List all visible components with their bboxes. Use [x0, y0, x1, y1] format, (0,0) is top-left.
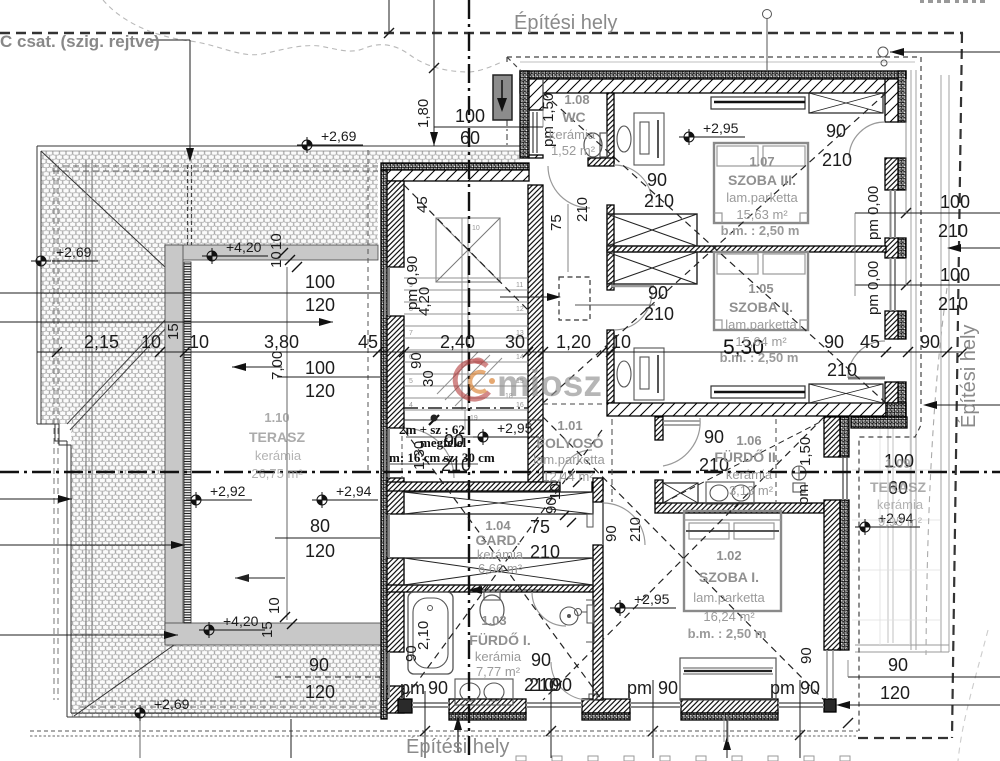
section arrow bottom: [457, 719, 459, 752]
svg-text:1,80: 1,80: [415, 99, 432, 128]
svg-text:12,44 m²: 12,44 m²: [542, 469, 594, 484]
svg-text:2,40: 2,40: [440, 332, 475, 352]
svg-text:120: 120: [305, 682, 335, 702]
svg-text:45: 45: [358, 332, 378, 352]
light dashed arc bottom right: [958, 630, 988, 761]
south wall blocks: [449, 699, 526, 713]
main dimension chain line: [37, 351, 963, 353]
svg-text:lam.parketta: lam.parketta: [725, 317, 797, 332]
stair north wall: [387, 170, 529, 181]
window south 1: [412, 703, 449, 707]
west wall blocks: [387, 181, 404, 267]
top right cut text fragment: [920, 0, 985, 3]
top dim line 100/60: [434, 126, 543, 128]
window dim line left 2: [277, 376, 380, 378]
svg-text:10: 10: [266, 597, 283, 614]
desk SZOBA III: [634, 113, 664, 165]
window west corridor: [385, 428, 389, 478]
svg-text:Építési hely: Építési hely: [514, 11, 617, 34]
FURDO II washbasins: [706, 482, 754, 504]
svg-text:210: 210: [627, 517, 644, 542]
svg-text:10: 10: [268, 233, 285, 250]
svg-text:75: 75: [530, 517, 550, 537]
roof shingle top band: [165, 151, 378, 245]
stair cross X: [436, 218, 500, 282]
svg-text:kerámia: kerámia: [477, 547, 524, 562]
hidden gutter dashed top: [53, 166, 378, 171]
terrace dim vertical line: [286, 267, 288, 620]
svg-text:100: 100: [940, 265, 970, 285]
stair bottom dot: [431, 415, 438, 422]
right dim row line 1: [855, 212, 1000, 214]
svg-text:kerámia: kerámia: [726, 467, 773, 482]
svg-text:Építési hely: Építési hely: [406, 735, 509, 758]
svg-text:miosz: miosz: [497, 363, 602, 404]
door SZOBA III east: [849, 122, 885, 158]
svg-text:90: 90: [800, 678, 820, 698]
svg-text:10: 10: [268, 251, 285, 268]
window south 2: [526, 703, 582, 707]
svg-text:120: 120: [305, 295, 335, 315]
roof hip top-left: [41, 151, 165, 267]
svg-text:26,75 m²: 26,75 m²: [251, 466, 303, 481]
window dim line left 4: [275, 676, 380, 678]
roof valley diagonal double: [67, 320, 165, 430]
closet hall lower X-box: [607, 252, 697, 284]
svg-text:1.09: 1.09: [885, 456, 910, 471]
level labels: [52, 120, 920, 713]
roof slope stair: [404, 185, 528, 310]
svg-text:b.m. : 2,50 m: b.m. : 2,50 m: [688, 626, 767, 641]
svg-text:15,64 m²: 15,64 m²: [735, 334, 787, 349]
section line vertical: [468, 0, 470, 755]
door SZOBA II west: [614, 292, 652, 330]
svg-text:C csat. (szig. rejtve): C csat. (szig. rejtve): [0, 32, 160, 51]
svg-text:30: 30: [420, 370, 437, 387]
svg-text:SZOBA I.: SZOBA I.: [699, 569, 759, 585]
svg-text:11: 11: [516, 282, 523, 289]
door SZOBA I: [603, 503, 645, 545]
corridor arrow interior: [468, 589, 545, 591]
svg-text:3,13 m²: 3,13 m²: [729, 483, 774, 498]
stair check notes: [389, 422, 495, 465]
svg-text:60: 60: [460, 128, 480, 148]
roof edge bottom: [67, 713, 385, 717]
svg-text:90: 90: [888, 655, 908, 675]
SZOBA I east wall: [824, 417, 840, 457]
south wall insulation: [449, 713, 526, 720]
SZOBA II bottom shelf: [711, 386, 805, 398]
bed SZOBA II: [714, 252, 808, 330]
inner envelope top: [507, 56, 921, 58]
window west GARD: [385, 514, 389, 558]
svg-text:1,52 m²: 1,52 m²: [551, 143, 596, 158]
svg-text:100: 100: [305, 272, 335, 292]
svg-text:100: 100: [455, 106, 485, 126]
svg-text:210: 210: [530, 542, 560, 562]
svg-text:90: 90: [603, 525, 620, 542]
dashed opening SZOBA I west: [611, 419, 613, 502]
svg-text:GARD.: GARD.: [475, 532, 520, 548]
parapet small ticks: [278, 248, 582, 629]
door GARD: [560, 450, 592, 482]
divider wall SZOBA III / II: [607, 246, 886, 252]
dim ticks main chain: [52, 347, 968, 357]
FURDO I washbasins: [455, 679, 513, 705]
svg-text:10: 10: [472, 225, 480, 232]
door FURDO II: [663, 418, 700, 466]
svg-text:kerámia: kerámia: [877, 497, 924, 512]
svg-text:14: 14: [516, 354, 524, 361]
svg-text:210: 210: [574, 197, 591, 222]
svg-text:10: 10: [189, 332, 209, 352]
svg-text:kerámia: kerámia: [549, 127, 596, 142]
east wall insulation blocks: [898, 71, 906, 122]
svg-text:210: 210: [644, 304, 674, 324]
svg-text:2,15: 2,15: [84, 332, 119, 352]
top right leader: [890, 51, 1000, 53]
svg-text:90: 90: [647, 170, 667, 190]
pipe below south wall: [724, 716, 728, 742]
roof shingle bottom band: [165, 645, 385, 717]
svg-text:+4,20: +4,20: [226, 239, 262, 255]
right lower dim lines: [848, 676, 1000, 678]
right dim row line 2: [855, 284, 1000, 286]
svg-text:90: 90: [531, 650, 551, 670]
svg-text:1,20: 1,20: [556, 332, 591, 352]
svg-text:Építési hely: Építési hely: [957, 325, 980, 428]
svg-text:FOLYOSÓ: FOLYOSÓ: [536, 434, 603, 451]
svg-text:7,00: 7,00: [269, 351, 286, 380]
level marker template uses: [31, 129, 875, 721]
svg-text:1.06: 1.06: [736, 433, 761, 448]
SZOBA III top shelf: [711, 97, 805, 109]
right lower terrace edge lines: [911, 70, 916, 650]
door WC: [548, 166, 590, 208]
svg-text:120: 120: [305, 541, 335, 561]
shaft dashed square: [559, 277, 590, 320]
svg-text:b.m. : 2,50 m: b.m. : 2,50 m: [721, 223, 800, 238]
main dim chain texts: [84, 332, 940, 352]
radiator GARD side: [587, 514, 593, 527]
stair stringer: [462, 218, 468, 410]
desk SZOBA II: [634, 348, 664, 400]
bench outside south: [680, 658, 776, 700]
svg-text:+2,69: +2,69: [56, 244, 92, 260]
GARD south wall: [387, 585, 603, 592]
svg-text:15: 15: [259, 621, 276, 638]
roof shingle area left column: [41, 151, 165, 424]
closet wall west of rooms: [607, 93, 614, 165]
roof slope X west wing: [404, 430, 602, 700]
roof slope X south wing: [543, 417, 824, 700]
svg-text:pm: pm: [770, 678, 795, 698]
svg-text:pm 0,00: pm 0,00: [865, 186, 882, 240]
svg-text:100: 100: [940, 192, 970, 212]
north wall insulation: [520, 71, 906, 79]
svg-text:lam.parketta: lam.parketta: [693, 590, 765, 605]
building site boundary bottom: [858, 737, 953, 739]
svg-text:+2,69: +2,69: [154, 696, 190, 712]
svg-text:210: 210: [938, 221, 968, 241]
svg-text:210: 210: [827, 360, 857, 380]
GARD north wall: [387, 482, 560, 491]
svg-text:+2,92: +2,92: [210, 483, 246, 499]
svg-text:5: 5: [409, 378, 413, 385]
terrace leader arrow: [930, 404, 1000, 406]
svg-text:pm: pm: [795, 484, 812, 505]
svg-text:SZOBA II.: SZOBA II.: [729, 299, 793, 315]
svg-text:45: 45: [860, 332, 880, 352]
terrain contour dashed: [103, 0, 502, 72]
stair east / corridor west wall: [528, 185, 543, 482]
svg-text:90: 90: [309, 655, 329, 675]
svg-text:+2,95: +2,95: [497, 420, 533, 436]
gutter lines left: [86, 160, 92, 700]
SZOBA II X wardrobe: [809, 384, 883, 403]
rain pipe: [763, 10, 772, 19]
svg-text:90: 90: [552, 675, 572, 695]
svg-text:1,50: 1,50: [797, 437, 814, 466]
door FURDO I inner arc: [551, 662, 589, 700]
svg-text:lam.parketta: lam.parketta: [726, 190, 798, 205]
svg-text:80: 80: [310, 516, 330, 536]
door FURDO I: [532, 592, 566, 626]
bed SZOBA I: [684, 511, 781, 611]
west WC wall: [529, 79, 543, 110]
left arrow line 1: [0, 498, 72, 500]
dashed arc right: [926, 288, 947, 655]
svg-text:SZOBA III.: SZOBA III.: [728, 172, 796, 188]
shaft arrow: [500, 296, 549, 298]
C csat leader: [150, 40, 190, 158]
FURDO II south wall: [655, 503, 824, 513]
svg-text:m: 16 cm sz: 30 cm: m: 16 cm sz: 30 cm: [389, 450, 495, 465]
stair north wall insulation: [381, 163, 529, 170]
svg-text:TERASZ: TERASZ: [249, 429, 305, 445]
south band of bedroom wing: [607, 403, 886, 416]
building site boundary top: [0, 32, 963, 35]
svg-text:1.08: 1.08: [564, 92, 589, 107]
window WC west: [533, 112, 537, 153]
svg-text:90: 90: [543, 497, 560, 514]
closet hall upper X-box: [607, 214, 697, 246]
svg-text:pm 0,00: pm 0,00: [865, 261, 882, 315]
svg-text:1.02: 1.02: [716, 548, 741, 563]
svg-text:12: 12: [516, 306, 524, 313]
svg-text:6,66 m²: 6,66 m²: [478, 561, 523, 576]
right wall leader arrow: [955, 247, 1000, 249]
svg-text:b.m. : 2,50 m: b.m. : 2,50 m: [720, 350, 799, 365]
hidden gutter dashed vertical: [54, 168, 58, 700]
door SZOBA III west: [614, 165, 652, 203]
terrace arrow left short: [232, 366, 282, 368]
svg-text:1.03: 1.03: [481, 613, 506, 628]
door dims bedrooms west: [441, 121, 852, 695]
svg-text:kerámia: kerámia: [255, 448, 302, 463]
svg-text:90: 90: [428, 678, 448, 698]
svg-text:1.10: 1.10: [264, 410, 289, 425]
window west stair: [385, 267, 389, 316]
svg-text:1.01: 1.01: [557, 418, 582, 433]
window south 3: [630, 703, 681, 707]
SZOBA I west wall: [593, 478, 603, 502]
radiator SZOBA I: [587, 605, 593, 623]
right dim ticks: [901, 208, 911, 290]
FURDO II toilet: [792, 466, 806, 480]
top dim vertical 1,80: [433, 0, 435, 146]
svg-text:FÜRDŐ I.: FÜRDŐ I.: [469, 631, 530, 648]
WC toilet: [584, 133, 602, 157]
svg-text:10: 10: [141, 332, 161, 352]
svg-text:7: 7: [409, 330, 413, 337]
svg-text:210: 210: [644, 191, 674, 211]
svg-text:90: 90: [704, 427, 724, 447]
window west FURDO I: [385, 652, 389, 698]
svg-text:1.05: 1.05: [748, 281, 773, 296]
window south 4: [778, 703, 824, 707]
svg-text:90: 90: [798, 647, 815, 664]
FURDO II west stubs: [655, 417, 663, 440]
FURDO I shower: [560, 607, 578, 625]
svg-text:15: 15: [165, 323, 182, 340]
svg-text:10: 10: [611, 332, 631, 352]
roof slope X bedrooms: [543, 93, 886, 403]
GARD X wardrobe top: [404, 492, 593, 514]
roof outer edge left: [37, 146, 41, 424]
svg-text:lam.parketta: lam.parketta: [533, 452, 605, 467]
svg-text:210: 210: [938, 294, 968, 314]
svg-text:FÜRDŐ II.: FÜRDŐ II.: [714, 448, 779, 465]
bed SZOBA III: [714, 143, 808, 223]
terrace inner wall strip west: [184, 262, 191, 623]
chimney flue dash-dot: [506, 120, 508, 146]
hidden pipe: [188, 165, 192, 245]
terrace parapet west band: [165, 245, 183, 645]
door corridor terrace: [404, 428, 454, 478]
roof slope FURDO II: [663, 420, 824, 503]
roof edge top: [37, 145, 520, 147]
bottom pm row: [400, 675, 820, 698]
east connector to south wall: [827, 650, 833, 699]
svg-text:1.04: 1.04: [485, 518, 511, 533]
window dim line left 1: [0, 292, 380, 294]
svg-text:90: 90: [403, 645, 420, 662]
GARD X wardrobe bottom: [404, 558, 593, 585]
svg-text:kerámia: kerámia: [475, 649, 522, 664]
svg-text:4,20: 4,20: [416, 287, 433, 316]
sill detail notch: [589, 694, 597, 700]
stair bottom landing line: [404, 419, 543, 421]
svg-text:3,80: 3,80: [264, 332, 299, 352]
svg-text:7,77 m²: 7,77 m²: [476, 664, 521, 679]
bottom tiny legend marks: [516, 756, 850, 761]
svg-text:30: 30: [505, 332, 525, 352]
svg-text:+2,94: +2,94: [336, 483, 372, 499]
svg-text:210: 210: [822, 150, 852, 170]
window east wall 1: [891, 190, 896, 238]
right dims: [880, 192, 970, 703]
svg-text:+4,20: +4,20: [223, 613, 259, 629]
west WC wall insulation: [520, 71, 529, 158]
line below +2,69 marker: [139, 718, 141, 758]
svg-text:TERASZ: TERASZ: [870, 479, 926, 495]
SZOBA III X wardrobe: [809, 93, 883, 113]
svg-text:16,24 m²: 16,24 m²: [703, 609, 755, 624]
east wall blocks: [885, 79, 898, 122]
svg-text:WC: WC: [562, 109, 585, 125]
svg-text:+2,95: +2,95: [703, 120, 739, 136]
terrace railing lines: [888, 422, 893, 643]
svg-text:75: 75: [548, 214, 565, 231]
window east wall 2: [891, 258, 896, 311]
svg-text:90: 90: [408, 352, 425, 369]
terrace band arrow: [0, 634, 178, 636]
tread numbers: [409, 225, 524, 422]
svg-text:9,95 m²: 9,95 m²: [878, 514, 923, 529]
FURDO II X box: [663, 483, 698, 503]
svg-text:210: 210: [524, 675, 554, 695]
corner squares: [398, 699, 412, 713]
dashed niche divider FURDO II: [775, 419, 777, 503]
svg-text:90: 90: [824, 332, 844, 352]
FURDO I toilet: [480, 595, 504, 625]
svg-text:45: 45: [414, 196, 431, 213]
svg-text:90: 90: [658, 678, 678, 698]
hidden gutter dashed bottom: [80, 701, 385, 707]
terrace long arrow right: [0, 321, 333, 323]
svg-text:100: 100: [305, 358, 335, 378]
svg-text:+2,69: +2,69: [321, 128, 357, 144]
left arrow line 2: [0, 544, 185, 546]
west wall insulation: [381, 170, 387, 719]
terrace parapet top band: [165, 245, 378, 260]
stair upper flight outline: [436, 218, 500, 282]
fine dashed vertical x368: [367, 150, 369, 470]
svg-text:19: 19: [470, 415, 478, 422]
svg-text:120: 120: [880, 683, 910, 703]
svg-text:1.07: 1.07: [749, 154, 774, 169]
svg-text:90: 90: [920, 332, 940, 352]
winder treads: [437, 352, 502, 406]
WC south stub wall: [588, 158, 614, 166]
door SZOBA II terrace: [848, 341, 885, 378]
section line horizontal: [0, 471, 1000, 473]
svg-text:pm: pm: [400, 678, 425, 698]
top tick x389: [388, 0, 390, 33]
svg-text:90: 90: [826, 121, 846, 141]
window FURDO II east: [843, 458, 847, 500]
FURDO I bathtub: [408, 592, 453, 674]
svg-text:15,63 m²: 15,63 m²: [736, 207, 788, 222]
svg-text:90: 90: [648, 283, 668, 303]
left window dims: [305, 272, 335, 702]
bottom ticks: [420, 718, 853, 740]
room labels: [249, 92, 926, 679]
stair treads: [404, 278, 528, 410]
window dim line left 3: [275, 537, 380, 539]
svg-text:pm: pm: [627, 678, 652, 698]
SZOBA I east wall insulation: [840, 417, 849, 457]
terrace parapet bottom band: [165, 623, 385, 645]
inner envelope right: [859, 57, 921, 731]
svg-text:120: 120: [305, 381, 335, 401]
svg-text:+2,95: +2,95: [634, 591, 670, 607]
roof notch step: [37, 424, 71, 717]
right terrace floor joints: [852, 420, 940, 645]
bottom vertical dim lines: [291, 680, 800, 758]
roof hip bottom-left: [74, 645, 174, 716]
